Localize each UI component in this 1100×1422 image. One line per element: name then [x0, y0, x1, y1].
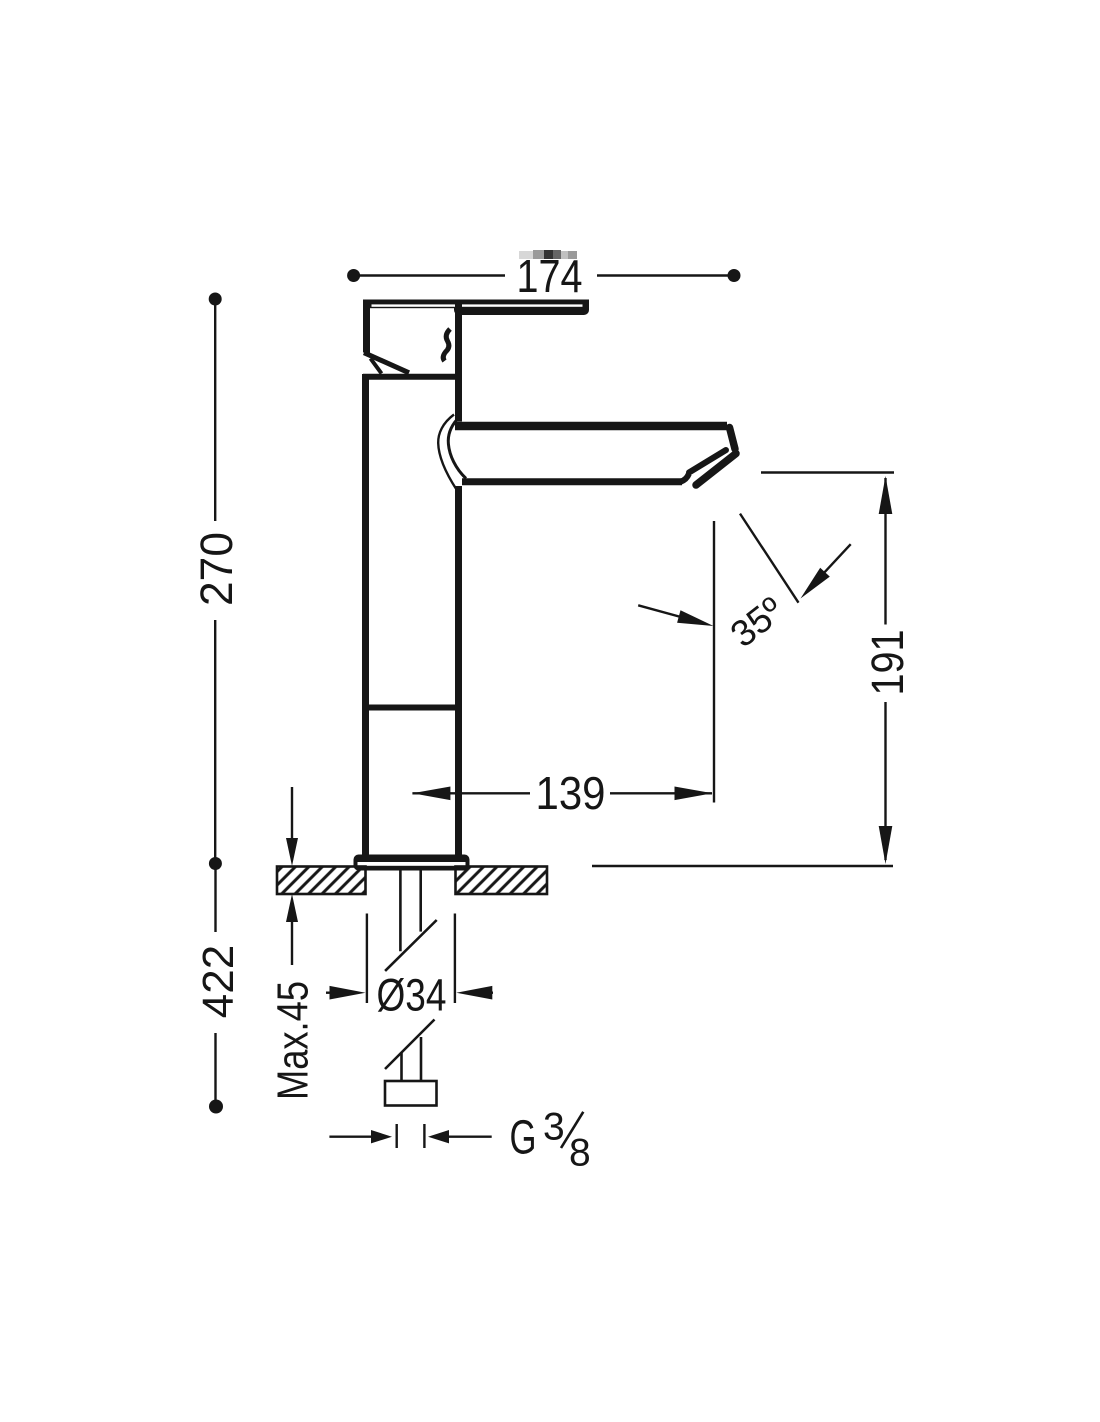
svg-text:G: G	[510, 1111, 537, 1164]
svg-text:3: 3	[543, 1105, 565, 1148]
svg-text:139: 139	[536, 767, 606, 819]
svg-text:174: 174	[517, 250, 583, 302]
svg-text:422: 422	[194, 945, 243, 1018]
svg-text:Ø34: Ø34	[377, 970, 447, 1021]
svg-text:Max.45: Max.45	[269, 981, 318, 1100]
svg-text:270: 270	[191, 532, 242, 606]
svg-text:191: 191	[862, 630, 913, 696]
svg-text:8: 8	[569, 1131, 591, 1174]
